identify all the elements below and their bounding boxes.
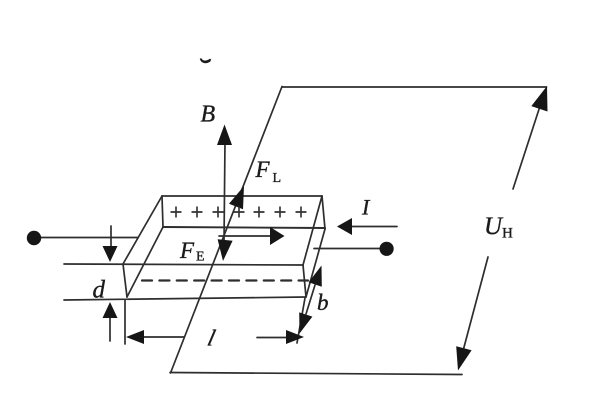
B field arrow shaft xyxy=(224,141,225,243)
svg-text:B: B xyxy=(201,102,216,128)
b dimension arrow shaft xyxy=(306,285,315,314)
svg-text:L: L xyxy=(273,171,282,186)
slab bottom-right slant edge xyxy=(306,229,325,297)
right terminal wire xyxy=(314,248,381,250)
d dimension lower arrow shaft xyxy=(109,316,111,341)
slab right-top slant edge xyxy=(303,196,322,265)
l dimension arrow line xyxy=(140,336,184,338)
slab front-bottom edge with d extension line xyxy=(64,297,306,300)
b upper arrowhead (up-right) xyxy=(309,266,322,287)
svg-text:H: H xyxy=(502,226,513,242)
wire loop left edge xyxy=(171,87,283,374)
svg-text:I: I xyxy=(361,195,371,220)
small stray mark at top xyxy=(201,59,211,63)
B arrowhead (up) xyxy=(217,125,232,146)
svg-text:b: b xyxy=(317,290,329,315)
slab back-bottom edge xyxy=(163,227,325,228)
l dimension right extension line xyxy=(297,298,305,343)
svg-text:F: F xyxy=(179,238,195,263)
svg-text:E: E xyxy=(196,250,205,265)
b lower arrowhead (down-left) xyxy=(299,312,312,333)
svg-text:U: U xyxy=(484,213,504,240)
slab back-right vertical edge xyxy=(322,196,325,229)
slab back-left vertical edge xyxy=(162,196,163,227)
d dimension upper arrow shaft xyxy=(110,226,112,248)
d upper arrowhead (down) xyxy=(103,246,118,262)
svg-text:l: l xyxy=(205,326,218,352)
l left arrowhead xyxy=(126,330,144,344)
wire loop right edge upper segment xyxy=(513,97,543,189)
slab front-right vertical edge xyxy=(303,265,306,297)
slab front-left vertical edge xyxy=(123,264,127,297)
svg-text:d: d xyxy=(93,277,106,304)
F_E down arrowhead xyxy=(218,239,233,261)
slab back-top edge xyxy=(162,195,322,197)
arrowhead of loop right edge upper (points up-right) xyxy=(531,86,547,112)
F_L arrowhead on loop left edge (points up-right) xyxy=(229,186,244,209)
left terminal dot xyxy=(27,231,41,245)
I arrowhead (left) xyxy=(337,218,352,235)
slab bottom-left slant edge xyxy=(127,227,163,297)
l dimension left extension line xyxy=(124,300,126,344)
d lower arrowhead (up) xyxy=(103,302,118,318)
plus charges row on top face xyxy=(171,207,307,218)
F_E horizontal arrow shaft xyxy=(219,235,272,237)
l right arrowhead xyxy=(286,330,304,344)
I current arrow shaft xyxy=(350,226,397,228)
left terminal wire xyxy=(38,237,138,239)
dashed minus-charge line on front face xyxy=(142,279,308,281)
svg-text:F: F xyxy=(255,157,271,182)
slab front-top edge with d extension line xyxy=(64,264,303,265)
wire loop top edge xyxy=(282,86,547,88)
arrowhead of loop right edge lower (points down-left) xyxy=(456,346,471,370)
wire loop bottom edge xyxy=(170,373,462,375)
slab left-top slant edge xyxy=(123,196,162,264)
wire loop right edge lower segment xyxy=(459,257,488,366)
right terminal dot xyxy=(380,242,394,256)
F_E right arrowhead xyxy=(270,227,285,245)
